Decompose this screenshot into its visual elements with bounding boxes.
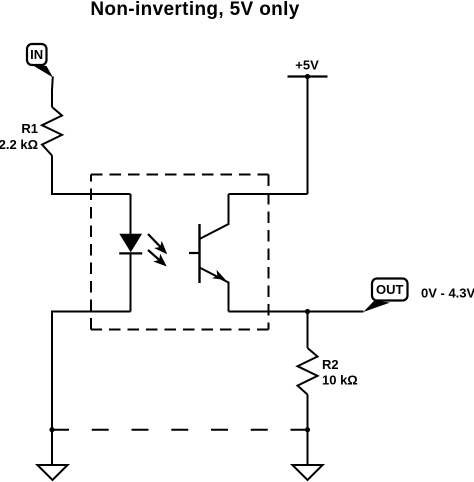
light coupling arrows <box>148 234 167 267</box>
wire R2 to ground <box>307 395 309 430</box>
node ground-right junction <box>305 427 310 432</box>
svg-text:2.2 kΩ: 2.2 kΩ <box>0 137 38 152</box>
LED D1 (opto emitter diode) <box>119 234 142 253</box>
node ground-left junction <box>49 427 54 432</box>
svg-text:10 kΩ: 10 kΩ <box>322 373 358 388</box>
svg-text:R2: R2 <box>322 357 339 372</box>
wire LED anode <box>130 194 132 235</box>
svg-text:+5V: +5V <box>295 58 319 73</box>
wire +5V drop <box>307 77 309 195</box>
svg-text:OUT: OUT <box>376 282 404 297</box>
svg-text:0V - 4.3V: 0V - 4.3V <box>421 286 474 301</box>
dashed ground link wire <box>52 429 308 431</box>
optocoupler U1 package (dashed box) <box>91 175 269 330</box>
svg-text:R1: R1 <box>21 121 38 136</box>
power +5V <box>288 58 328 80</box>
svg-text:IN: IN <box>30 47 43 62</box>
wire R1 to LED anode <box>52 156 131 195</box>
phototransistor Q1 <box>189 194 229 312</box>
wire emitter to OUT <box>229 311 364 313</box>
wire to ground right <box>307 430 309 465</box>
wire to ground left <box>51 430 53 465</box>
node OUT junction <box>305 309 310 314</box>
wire LED cathode <box>130 253 132 312</box>
svg-text:Non-inverting, 5V only: Non-inverting, 5V only <box>90 0 299 20</box>
ground right <box>292 465 322 480</box>
resistor R2 <box>298 348 318 395</box>
wire LED cathode to ground <box>52 312 131 430</box>
wire OUT to R2 <box>307 312 309 349</box>
wire collector to +5V <box>229 193 308 195</box>
port IN <box>27 44 53 78</box>
port OUT <box>363 279 407 313</box>
wire IN to R1 <box>51 77 54 108</box>
ground left <box>37 465 67 480</box>
resistor R1 <box>42 107 62 156</box>
